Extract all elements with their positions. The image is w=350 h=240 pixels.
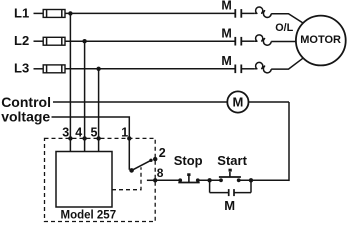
- wire L1 drop to pin 3: [69, 13, 71, 151]
- wire L3 drop to pin 5: [98, 69, 100, 152]
- contact M3: [235, 65, 241, 74]
- wire coil to corner: [249, 101, 290, 103]
- wire branch right drop: [250, 180, 252, 192]
- fuse F3: [43, 65, 65, 73]
- coil M circle: [227, 91, 248, 112]
- wire control to coil M: [53, 101, 227, 103]
- node L2 tap: [82, 39, 86, 43]
- contact M2: [235, 37, 241, 46]
- node start branch right: [249, 178, 253, 182]
- svg-text:8: 8: [157, 166, 164, 180]
- wire L3 horizontal: [65, 68, 235, 70]
- motor M: [296, 16, 346, 66]
- svg-text:O/L: O/L: [275, 22, 293, 34]
- node L1 tap: [68, 11, 72, 15]
- fuse F2: [43, 37, 65, 45]
- svg-text:4: 4: [75, 126, 82, 140]
- contact M1: [235, 9, 241, 18]
- svg-text:Stop: Stop: [174, 153, 203, 168]
- pin 3 node: [68, 136, 72, 140]
- wire L3 contact to overload: [241, 68, 255, 70]
- svg-text:Start: Start: [217, 153, 247, 168]
- wire L2 contact to overload: [241, 40, 255, 42]
- holding contact M aux: [229, 189, 234, 196]
- wire right side drop: [288, 102, 290, 181]
- wire L1 lead: [34, 12, 44, 14]
- wire branch left drop: [209, 180, 211, 192]
- wire L1 contact to overload: [241, 12, 255, 14]
- wire L1 to motor: [271, 14, 303, 23]
- wire L2 lead: [34, 40, 44, 42]
- wire voltage to pin 1: [52, 117, 130, 170]
- svg-text:M: M: [224, 198, 235, 213]
- svg-text:3: 3: [62, 126, 69, 140]
- node start branch left: [207, 178, 211, 182]
- overload heater OL3: [255, 62, 271, 72]
- terminal 2 node: [153, 157, 157, 161]
- svg-text:2: 2: [159, 146, 166, 160]
- fuse F1: [43, 10, 65, 18]
- wire branch rail left: [210, 192, 229, 194]
- Stop pushbutton (NC): [178, 173, 199, 182]
- svg-text:MOTOR: MOTOR: [300, 34, 341, 46]
- wire L3 to motor: [271, 58, 303, 69]
- svg-text:M: M: [221, 26, 231, 40]
- svg-text:L2: L2: [14, 33, 29, 48]
- switch blade tip: [149, 159, 152, 162]
- svg-text:M: M: [221, 54, 231, 68]
- svg-text:M: M: [221, 0, 231, 13]
- relay box Model 257: [56, 152, 112, 208]
- wire Start to corner: [239, 179, 289, 181]
- overload heater OL2: [255, 35, 271, 45]
- node L3 tap: [96, 67, 100, 71]
- svg-text:5: 5: [91, 126, 98, 140]
- svg-text:L1: L1: [14, 5, 29, 20]
- svg-text:Model 257: Model 257: [61, 210, 117, 222]
- mechanical linkage (dashed): [112, 167, 141, 190]
- terminal 8 node: [153, 178, 157, 182]
- wire L2 to motor: [271, 41, 296, 43]
- wire branch rail right: [234, 192, 251, 194]
- overload heater OL1: [255, 7, 271, 17]
- wire L2 horizontal: [65, 40, 235, 42]
- pin 5 node: [96, 136, 100, 140]
- Start pushbutton (NO): [219, 169, 241, 183]
- wire Stop to Start: [198, 179, 221, 181]
- svg-text:1: 1: [121, 126, 128, 140]
- wire terminal 8 to Stop: [155, 179, 180, 181]
- wire L2 drop to pin 4: [84, 41, 86, 151]
- switch pivot node: [129, 168, 134, 173]
- Model 257 enclosure (dashed): [45, 138, 156, 221]
- pin 1 node: [127, 136, 131, 140]
- svg-text:M: M: [232, 95, 243, 110]
- svg-text:L3: L3: [14, 61, 29, 76]
- svg-text:voltage: voltage: [1, 108, 50, 124]
- wire L1 horizontal: [65, 12, 235, 14]
- wire terminal 8 stub: [147, 179, 155, 181]
- pin 4 node: [82, 136, 86, 140]
- switch blade: [132, 160, 151, 170]
- wire L3 lead: [34, 68, 44, 70]
